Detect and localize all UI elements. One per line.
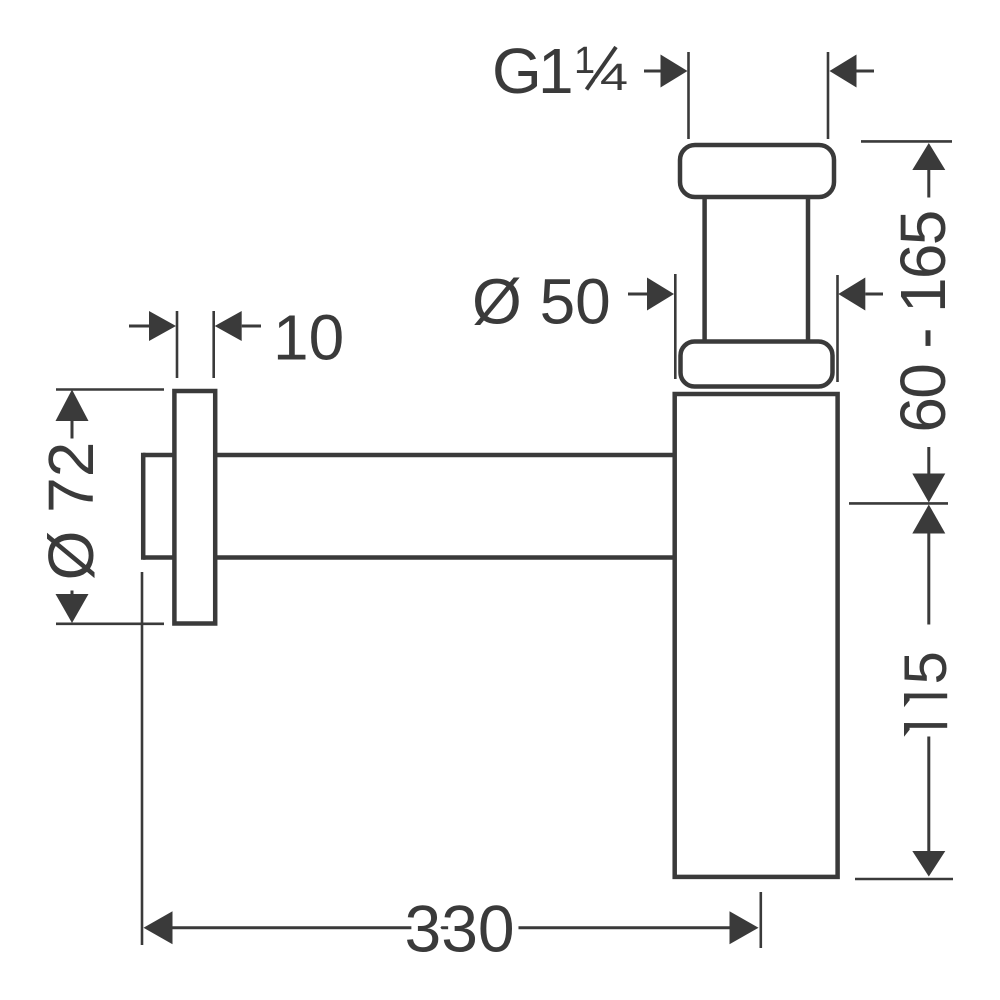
G1 1/4 dimension left leader line — [644, 70, 662, 73]
outlet pipe top wall — [215, 453, 675, 458]
dia 72 bottom arrow — [56, 594, 89, 623]
svg-text:5: 5 — [892, 651, 959, 684]
dia 50 right arrow — [838, 278, 865, 311]
115 bottom extension line — [855, 878, 953, 881]
dia 72 top extension line — [56, 388, 164, 391]
60-165 dimension line — [927, 170, 930, 198]
10 dimension left leader line — [129, 325, 150, 328]
svg-text:Ø 50: Ø 50 — [472, 266, 611, 338]
svg-text:1: 1 — [574, 40, 595, 82]
dia 50 right leader line — [865, 293, 883, 296]
label 115 first digit 1 flag — [904, 694, 910, 708]
svg-text:G: G — [492, 35, 542, 107]
G1 1/4 right leader line — [857, 70, 875, 73]
inlet pipe right wall — [806, 197, 811, 341]
label 115 second digit 1 (rotated bar) — [904, 723, 947, 728]
divider line between 60-165 and 115 — [849, 502, 948, 505]
115 top double arrow lower triangle — [912, 505, 945, 534]
10 dimension left extension line — [176, 311, 179, 378]
dia 50 right extension line — [836, 275, 839, 382]
115 bottom arrow — [912, 851, 945, 877]
middle seal flange — [681, 342, 833, 387]
330 dimension line — [173, 926, 730, 929]
10 dimension right arrow — [215, 311, 242, 341]
siphon body — [675, 394, 838, 877]
label 115 second digit 1 flag — [904, 723, 910, 737]
top flange (nut) of siphon inlet — [680, 145, 834, 197]
svg-text:60 - 165: 60 - 165 — [887, 211, 959, 432]
dia 72 bottom extension line — [56, 622, 164, 625]
60-165 top arrow — [912, 143, 945, 170]
dia 72 top arrow — [56, 390, 89, 422]
G1 1/4 right extension line — [827, 52, 830, 139]
svg-text:330: 330 — [405, 892, 515, 966]
dia 50 dimension leader line — [628, 293, 648, 296]
svg-text:Ø 72: Ø 72 — [35, 442, 107, 581]
svg-text:10: 10 — [273, 302, 344, 374]
330 right extension line — [759, 892, 762, 948]
G1 1/4 right arrow — [830, 55, 857, 88]
label G1 1/4 fraction slash — [587, 47, 617, 90]
outlet pipe stub end cap — [141, 453, 146, 560]
60-165 top extension line — [861, 140, 952, 143]
inlet pipe left wall — [702, 197, 707, 341]
label 115 first digit 1 (rotated bar) — [904, 694, 947, 699]
115 dimension line — [927, 534, 930, 625]
10 dimension right extension line — [212, 311, 215, 378]
white patch clearing dimension line inside 0 counter — [485, 921, 508, 934]
G1 1/4 left arrow — [661, 55, 688, 88]
dia 50 left extension line — [674, 274, 677, 379]
330 left extension line — [141, 572, 144, 945]
svg-text:1: 1 — [538, 35, 574, 107]
330 right arrow — [730, 911, 759, 944]
outlet pipe stub bottom — [143, 555, 176, 560]
10 dimension right leader line — [242, 325, 261, 328]
svg-text:4: 4 — [600, 57, 628, 99]
dia 72 dimension line — [71, 421, 74, 439]
outlet pipe bottom wall — [215, 555, 675, 560]
outlet pipe stub top — [143, 453, 176, 458]
330 left arrow — [144, 911, 173, 944]
10 dimension left arrow — [149, 311, 176, 341]
dia 50 left arrow — [647, 278, 674, 311]
G1 1/4 left extension line — [687, 52, 690, 139]
wall flange — [174, 391, 215, 624]
60-165 lower double arrow upper triangle — [912, 474, 945, 503]
